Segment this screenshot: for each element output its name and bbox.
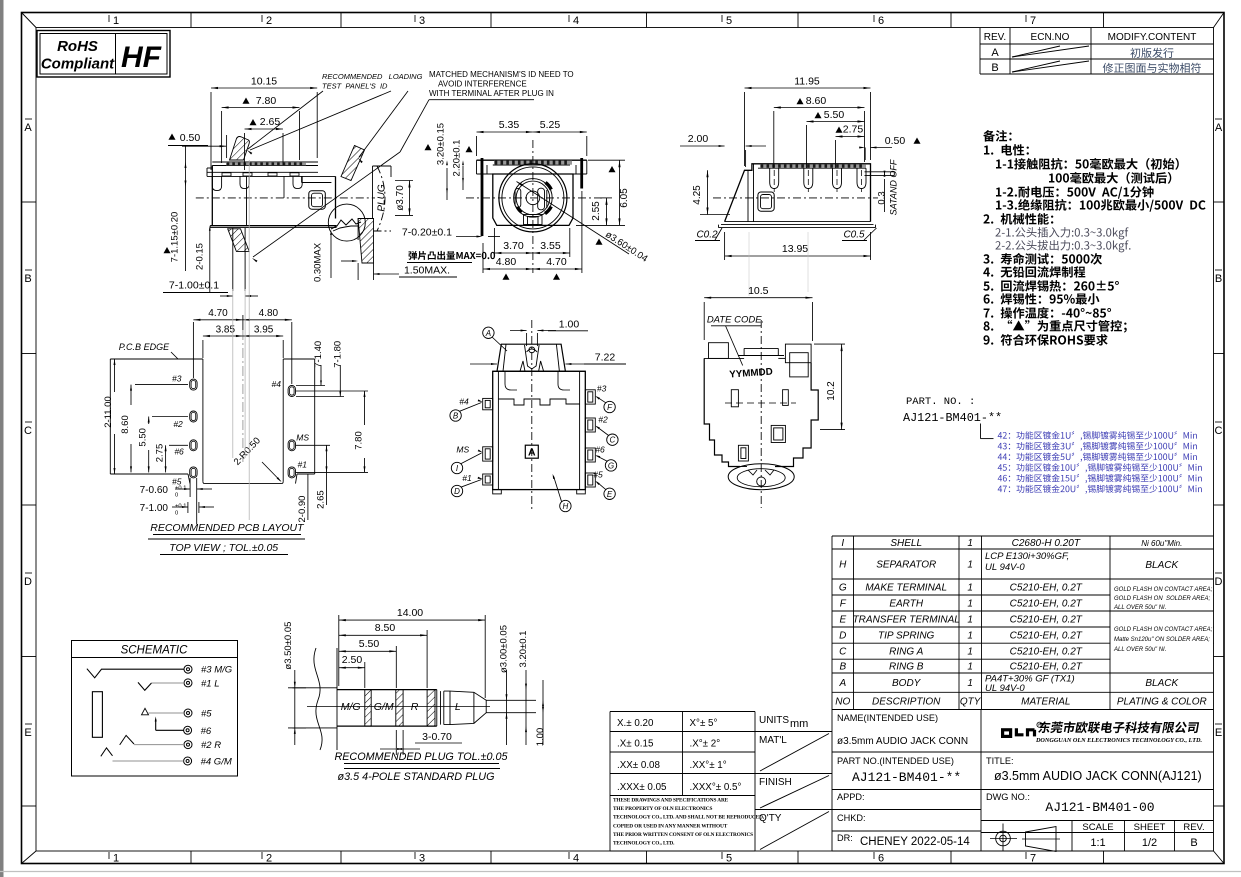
svg-text:GOLD FLASH ON SOLDER AREA;: GOLD FLASH ON SOLDER AREA; xyxy=(1114,596,1210,602)
dim 4.25 xyxy=(700,169,722,171)
svg-text:C2680-H 0.20T: C2680-H 0.20T xyxy=(1012,538,1081,549)
svg-text:3.70: 3.70 xyxy=(503,240,524,252)
svg-text:TIP SPRING: TIP SPRING xyxy=(878,631,935,642)
svg-text:2: 2 xyxy=(266,853,272,865)
svg-text:R: R xyxy=(411,701,419,713)
svg-text:1.00: 1.00 xyxy=(559,319,580,331)
svg-text:1: 1 xyxy=(967,631,973,642)
svg-text:ECN.NO: ECN.NO xyxy=(1031,32,1070,43)
svg-text:B: B xyxy=(24,273,31,285)
svg-text:2: 2 xyxy=(266,15,272,27)
title block xyxy=(831,710,833,852)
svg-text:TRANSFER TERMINAL: TRANSFER TERMINAL xyxy=(853,615,960,626)
svg-text:5.50: 5.50 xyxy=(824,109,845,121)
svg-text:I: I xyxy=(841,538,844,549)
notes (Chinese) block xyxy=(983,130,1011,142)
section label H xyxy=(560,500,571,511)
dim 14.00 xyxy=(338,615,340,686)
svg-text:#3 M/G: #3 M/G xyxy=(201,665,232,676)
hatched panel lower xyxy=(228,229,250,252)
svg-text:MATERIAL: MATERIAL xyxy=(1021,696,1070,707)
spring protrusion note xyxy=(409,251,496,260)
dim 6.05 xyxy=(588,159,625,161)
svg-text:EARTH: EARTH xyxy=(889,599,923,610)
svg-text:CHKD:: CHKD: xyxy=(837,813,866,823)
section label A circle xyxy=(483,327,494,338)
svg-text:C5210-EH, 0.2T: C5210-EH, 0.2T xyxy=(1010,599,1083,610)
svg-text:7: 7 xyxy=(1030,15,1036,27)
svg-text:Matte Sn120u" ON SOLDER AREA;: Matte Sn120u" ON SOLDER AREA; xyxy=(1114,637,1210,643)
svg-text:PLATING & COLOR: PLATING & COLOR xyxy=(1117,696,1207,707)
tip extension lines xyxy=(486,699,536,701)
outline top blocks xyxy=(709,343,729,359)
svg-text:2.75: 2.75 xyxy=(843,124,864,136)
plug tip xyxy=(444,691,486,725)
svg-text:C0.5: C0.5 xyxy=(843,230,865,241)
dim 2-0.15 xyxy=(209,228,211,292)
svg-text:5.50: 5.50 xyxy=(138,428,149,447)
svg-text:E: E xyxy=(1215,727,1222,739)
svg-text:#5: #5 xyxy=(201,709,212,720)
svg-text:7-1.00±0.1: 7-1.00±0.1 xyxy=(169,280,219,292)
svg-text:ø3.00±0.05: ø3.00±0.05 xyxy=(499,625,510,673)
schematic box xyxy=(72,641,238,777)
side window rounded rect xyxy=(309,191,326,210)
sleeve contact rectangle xyxy=(92,692,102,738)
body bottom plate xyxy=(210,225,336,227)
center hole circle xyxy=(526,191,540,205)
left gray strip xyxy=(0,0,4,877)
terminals hanging xyxy=(770,168,779,188)
svg-text:2.00: 2.00 xyxy=(688,133,709,145)
svg-text:7-0.60: 7-0.60 xyxy=(140,485,169,496)
side bumps left xyxy=(483,398,493,409)
svg-text:DATE CODE.: DATE CODE. xyxy=(707,315,764,326)
svg-text:mm: mm xyxy=(790,718,808,730)
svg-text:RING B: RING B xyxy=(889,662,924,673)
side bumps right xyxy=(585,390,595,404)
svg-text:5: 5 xyxy=(726,15,732,27)
contact wedge top right xyxy=(546,183,552,190)
svg-text:H: H xyxy=(563,502,569,511)
svg-text:10.2: 10.2 xyxy=(826,381,837,401)
svg-text:ø3.5mm AUDIO JACK CONN: ø3.5mm AUDIO JACK CONN xyxy=(837,736,968,747)
svg-text:#2 R: #2 R xyxy=(201,740,221,751)
boxed A section mark xyxy=(525,445,538,458)
flange with serrations xyxy=(477,159,587,161)
svg-text:LCP E130i+30%GF,: LCP E130i+30%GF, xyxy=(985,551,1069,562)
dim 8.60 r xyxy=(773,111,775,168)
main body side xyxy=(211,166,213,226)
dim 3.70 3.55 xyxy=(493,228,495,257)
wire #4 with peak xyxy=(101,748,113,756)
dim 2.75 xyxy=(165,445,167,472)
pcb edge outline xyxy=(110,358,203,360)
svg-text:8.60: 8.60 xyxy=(806,95,827,107)
side window right view xyxy=(758,192,774,211)
svg-text:C0.2: C0.2 xyxy=(696,230,718,241)
svg-text:PLUG: PLUG xyxy=(377,184,388,211)
hatched ring 1 xyxy=(365,690,371,727)
svg-text:3.20±0.15: 3.20±0.15 xyxy=(436,123,447,165)
svg-text:E: E xyxy=(839,615,846,626)
svg-text:SCHEMATIC: SCHEMATIC xyxy=(121,645,189,657)
terminal #1 L xyxy=(184,679,192,687)
svg-text:#1: #1 xyxy=(298,460,308,470)
bottom feet xyxy=(493,490,502,494)
dim dia 3.60 xyxy=(517,182,630,255)
svg-text:2.75: 2.75 xyxy=(155,444,166,463)
svg-text:#6: #6 xyxy=(595,444,605,454)
svg-text:ø3.5mm AUDIO JACK CONN(AJ121): ø3.5mm AUDIO JACK CONN(AJ121) xyxy=(994,769,1202,783)
hatched panel right-upper xyxy=(341,146,365,181)
svg-text:C5210-EH, 0.2T: C5210-EH, 0.2T xyxy=(1010,647,1083,658)
dim 2.75 r xyxy=(835,140,837,168)
dim 7.80 xyxy=(296,390,368,392)
tolerance table xyxy=(609,712,611,852)
svg-text:AJ121-BM401-**: AJ121-BM401-** xyxy=(852,770,961,785)
svg-text:3: 3 xyxy=(419,15,425,27)
units matl finish qty cells xyxy=(755,731,832,733)
left pcb thick bar xyxy=(481,158,484,236)
svg-text:UL 94V-0: UL 94V-0 xyxy=(985,562,1025,573)
svg-text:A: A xyxy=(838,678,846,689)
svg-text:10.15: 10.15 xyxy=(251,76,277,88)
front body outline xyxy=(493,174,573,225)
dim 5.35 5.25 xyxy=(476,136,478,156)
svg-text:COPIED OR USED IN ANY MANNER W: COPIED OR USED IN ANY MANNER WITHOUT xyxy=(613,823,728,829)
svg-text:AJ121-BM401-00: AJ121-BM401-00 xyxy=(1045,800,1154,815)
svg-text:1: 1 xyxy=(967,647,973,658)
svg-text:ø3.50±0.05: ø3.50±0.05 xyxy=(283,622,294,670)
terminal #2 R xyxy=(184,741,192,749)
svg-text:SEPARATOR: SEPARATOR xyxy=(876,560,936,571)
svg-text:TOP VIEW ; TOL.±0.05: TOP VIEW ; TOL.±0.05 xyxy=(169,542,278,554)
svg-text:D: D xyxy=(24,576,32,588)
svg-text:FINISH: FINISH xyxy=(759,777,792,788)
terminal #3 M/G xyxy=(184,665,192,673)
svg-text:1: 1 xyxy=(967,678,973,689)
svg-text:DESCRIPTION: DESCRIPTION xyxy=(872,696,941,707)
svg-text:C5210-EH, 0.2T: C5210-EH, 0.2T xyxy=(1010,583,1083,594)
foot projection lines xyxy=(232,228,234,291)
svg-text:RECOMMENDED PCB LAYOUT: RECOMMENDED PCB LAYOUT xyxy=(150,522,305,534)
svg-text:ø3.5 4-POLE STANDARD PLUG: ø3.5 4-POLE STANDARD PLUG xyxy=(338,771,495,783)
wire #3 with switch xyxy=(87,669,184,678)
dim 10.15 xyxy=(210,92,212,170)
dim 2.65 xyxy=(296,444,330,446)
svg-text:P.C.B EDGE: P.C.B EDGE xyxy=(119,342,170,352)
svg-text:7-1.00: 7-1.00 xyxy=(140,503,169,514)
svg-text:AJ121-BM401-**: AJ121-BM401-** xyxy=(903,411,1002,425)
svg-text:0.3: 0.3 xyxy=(877,191,888,204)
svg-text:D: D xyxy=(839,631,846,642)
RoHS Compliant HF logo box xyxy=(37,31,170,78)
terminal #5 xyxy=(184,709,192,717)
svg-text:DWG NO.:: DWG NO.: xyxy=(986,792,1030,802)
svg-text:B: B xyxy=(1215,273,1222,285)
svg-text:5.35: 5.35 xyxy=(499,119,520,131)
body internal verticals xyxy=(246,176,248,225)
contact wedge left xyxy=(517,207,522,213)
pads left column xyxy=(190,379,197,390)
svg-text:G/M: G/M xyxy=(374,701,394,713)
svg-text:4.80: 4.80 xyxy=(496,256,517,268)
svg-text:2.50: 2.50 xyxy=(342,654,363,666)
svg-text:Q'TY: Q'TY xyxy=(759,813,782,824)
svg-text:#4: #4 xyxy=(272,379,282,389)
svg-text:SHELL: SHELL xyxy=(890,538,922,549)
svg-text:1: 1 xyxy=(113,853,119,865)
terminal #4 G/M xyxy=(184,757,192,765)
dim 7-0.60 xyxy=(189,478,191,497)
svg-text:E: E xyxy=(24,727,31,739)
svg-text:MS: MS xyxy=(456,444,469,454)
svg-text:RoHS: RoHS xyxy=(57,38,98,55)
third angle projection symbol xyxy=(996,831,1011,846)
main outline top view xyxy=(704,357,744,359)
svg-text:7: 7 xyxy=(1030,853,1036,865)
svg-text:1: 1 xyxy=(967,662,973,673)
part number bracket xyxy=(980,424,982,439)
svg-text:6: 6 xyxy=(878,853,884,865)
svg-text:1.50MAX.: 1.50MAX. xyxy=(404,265,450,277)
dim 5.50 xyxy=(148,417,150,425)
svg-text:TITLE:: TITLE: xyxy=(986,756,1014,766)
svg-text:PART. NO. :: PART. NO. : xyxy=(906,396,975,408)
svg-text:0.30MAX: 0.30MAX xyxy=(313,242,324,282)
svg-text:7-1.15±0.20: 7-1.15±0.20 xyxy=(170,212,181,263)
svg-text:Ni 60u"Min.: Ni 60u"Min. xyxy=(1141,539,1182,548)
dim 0.50 xyxy=(169,134,176,140)
projection lines gray xyxy=(232,289,234,458)
centerline top view xyxy=(760,320,762,508)
spring detail circle xyxy=(328,204,365,241)
svg-text:PART NO.(INTENDED USE): PART NO.(INTENDED USE) xyxy=(837,756,954,766)
dim 7.80 xyxy=(221,111,223,163)
svg-text:B: B xyxy=(991,62,998,74)
leader lines to panels xyxy=(248,91,323,149)
svg-text:A: A xyxy=(1215,122,1223,134)
svg-text:#1: #1 xyxy=(462,473,472,483)
svg-text:C: C xyxy=(839,647,847,658)
svg-text:UL 94V-0: UL 94V-0 xyxy=(985,683,1025,694)
projection lines from views gray xyxy=(748,232,750,296)
svg-text:4: 4 xyxy=(573,15,579,27)
pads right column xyxy=(288,386,295,397)
svg-text:M/G: M/G xyxy=(341,701,361,713)
plug handle with break lines xyxy=(293,687,338,689)
svg-text:2.20±0.1: 2.20±0.1 xyxy=(452,140,463,177)
svg-text:1: 1 xyxy=(967,560,973,571)
neck rings xyxy=(436,690,438,727)
svg-text:4: 4 xyxy=(573,853,579,865)
svg-text:7.22: 7.22 xyxy=(595,352,616,364)
svg-text:#4: #4 xyxy=(459,397,469,407)
svg-text:X.± 0.20: X.± 0.20 xyxy=(617,718,654,729)
svg-text:ALL OVER 50u" NI.: ALL OVER 50u" NI. xyxy=(1113,647,1166,653)
svg-text:0: 0 xyxy=(175,493,178,499)
dim 13.95 xyxy=(724,232,726,260)
svg-text:ø3.70: ø3.70 xyxy=(395,185,406,211)
dim 8.50 xyxy=(426,630,428,688)
svg-text:DR:: DR: xyxy=(837,833,853,843)
svg-text:.XXX°± 0.5°: .XXX°± 0.5° xyxy=(690,782,742,793)
svg-text:7-1.80: 7-1.80 xyxy=(332,341,343,368)
svg-text:#3: #3 xyxy=(172,373,182,383)
centerline bottom view xyxy=(531,320,533,510)
svg-text:1.00: 1.00 xyxy=(535,728,546,747)
svg-text:WITH TERMINAL AFTER PLUG IN: WITH TERMINAL AFTER PLUG IN xyxy=(429,89,554,98)
dim 2-0.90 xyxy=(296,475,308,477)
svg-text:#1 L: #1 L xyxy=(201,678,220,689)
svg-text:6: 6 xyxy=(878,15,884,27)
svg-text:GOLD FLASH ON CONTACT AREA;: GOLD FLASH ON CONTACT AREA; xyxy=(1114,587,1213,593)
svg-text:#2: #2 xyxy=(598,415,608,425)
svg-text:SCALE: SCALE xyxy=(1082,822,1113,833)
svg-text:1: 1 xyxy=(967,538,973,549)
wire #2 with peak xyxy=(120,735,134,745)
centerline right view xyxy=(713,197,878,199)
svg-text:BLACK: BLACK xyxy=(1145,678,1179,689)
jack inner ring xyxy=(514,179,553,218)
svg-text:TEST PANEL'S ID: TEST PANEL'S ID xyxy=(322,82,388,91)
svg-text:5.25: 5.25 xyxy=(540,119,561,131)
jack outer ring xyxy=(499,164,567,232)
svg-text:.XX°± 1°: .XX°± 1° xyxy=(690,760,727,771)
svg-text:UNITS: UNITS xyxy=(759,715,789,726)
company logo OLN xyxy=(1003,728,1035,736)
svg-text:C: C xyxy=(1215,425,1223,437)
contact wedge bottom right xyxy=(545,207,551,214)
dim 4.80 4.70 xyxy=(482,243,484,273)
svg-text:4.80: 4.80 xyxy=(259,308,279,319)
svg-text:D: D xyxy=(454,487,460,496)
dim 2-11.00 xyxy=(114,359,116,392)
svg-text:7.80: 7.80 xyxy=(256,95,277,107)
svg-text:GOLD FLASH ON CONTACT AREA;: GOLD FLASH ON CONTACT AREA; xyxy=(1114,627,1213,633)
svg-text:RECOMMENDED LOADING: RECOMMENDED LOADING xyxy=(322,72,423,81)
svg-text:DONGGUAN OLN ELECTRONICS TECHN: DONGGUAN OLN ELECTRONICS TECHNOLOGY CO.,… xyxy=(1035,737,1202,744)
svg-text:MODIFY.CONTENT: MODIFY.CONTENT xyxy=(1108,32,1197,43)
svg-text:CHENEY 2022-05-14: CHENEY 2022-05-14 xyxy=(860,836,970,848)
svg-text:MAKE TERMINAL: MAKE TERMINAL xyxy=(865,583,947,594)
svg-text:#4 G/M: #4 G/M xyxy=(201,757,232,768)
inner small parts xyxy=(731,390,738,407)
dim 3.85 3.95 xyxy=(202,340,204,358)
svg-text:8.60: 8.60 xyxy=(120,415,131,434)
svg-text:Compliant: Compliant xyxy=(41,56,115,73)
svg-text:REV.: REV. xyxy=(984,32,1006,43)
svg-text:7.80: 7.80 xyxy=(354,431,365,450)
top cap trapezoid xyxy=(497,344,565,371)
dim 10.2 top view xyxy=(814,343,845,345)
svg-text:.XXX± 0.05: .XXX± 0.05 xyxy=(617,782,667,793)
svg-text:BODY: BODY xyxy=(892,678,922,689)
dim 2.50 xyxy=(364,662,366,688)
svg-text:RING A: RING A xyxy=(889,647,923,658)
svg-text:8.50: 8.50 xyxy=(375,622,396,634)
svg-text:7-0.20±0.1: 7-0.20±0.1 xyxy=(402,227,452,239)
svg-text:4.25: 4.25 xyxy=(692,185,703,205)
dim 7-1.00 xyxy=(187,502,189,513)
svg-text:2-0.90: 2-0.90 xyxy=(297,496,308,523)
dim 1.00 clip xyxy=(526,333,528,346)
svg-text:1: 1 xyxy=(967,599,973,610)
svg-text:D: D xyxy=(1215,576,1223,588)
svg-text:G: G xyxy=(608,461,614,470)
dim 10.5 top xyxy=(703,302,705,340)
top serration right view xyxy=(758,167,866,169)
svg-text:1: 1 xyxy=(967,583,973,594)
svg-text:C5210-EH, 0.2T: C5210-EH, 0.2T xyxy=(1010,662,1083,673)
inner contact left xyxy=(515,188,521,207)
plug centerline xyxy=(307,706,490,708)
standoff pin xyxy=(865,171,895,173)
feet hooks xyxy=(212,176,221,190)
svg-text:3: 3 xyxy=(419,853,425,865)
svg-text:#3: #3 xyxy=(597,384,607,394)
svg-text:E: E xyxy=(607,490,613,499)
wire #6 with arrow xyxy=(156,729,184,731)
svg-text:B: B xyxy=(453,412,459,421)
dim 2.65 xyxy=(244,133,246,170)
svg-text:0.50: 0.50 xyxy=(885,135,906,147)
svg-text:3.55: 3.55 xyxy=(540,240,561,252)
svg-text:10.5: 10.5 xyxy=(748,285,769,297)
svg-text:.XX± 0.08: .XX± 0.08 xyxy=(617,760,661,771)
dim 5.50 r xyxy=(806,125,808,168)
svg-text:SATAND OFF: SATAND OFF xyxy=(889,159,899,215)
svg-text:BLACK: BLACK xyxy=(1145,560,1179,571)
hatched ring 3 xyxy=(427,690,435,727)
svg-text:THE PROPERTY OF OLN ELECTRONIC: THE PROPERTY OF OLN ELECTRONICS xyxy=(613,806,712,812)
svg-text:RECOMMENDED PLUG TOL.±0.05: RECOMMENDED PLUG TOL.±0.05 xyxy=(334,751,508,763)
svg-text:6.05: 6.05 xyxy=(619,188,630,208)
svg-text:THE PRIOR WRITTEN CONSENT OF O: THE PRIOR WRITTEN CONSENT OF OLN ELECTRO… xyxy=(613,832,753,838)
svg-text:5.50: 5.50 xyxy=(359,638,380,650)
dim 5.50 xyxy=(395,646,397,688)
svg-text:B: B xyxy=(1190,837,1197,849)
corner diagonals xyxy=(22,13,37,28)
svg-text:TECHNOLOGY CO., LTD.: TECHNOLOGY CO., LTD. xyxy=(613,841,675,847)
svg-text:F: F xyxy=(840,599,847,610)
svg-text:13.95: 13.95 xyxy=(782,243,808,255)
svg-text:G: G xyxy=(839,583,847,594)
border zone dividers xyxy=(190,13,192,28)
dim 11.95 xyxy=(744,92,746,166)
svg-text:0.50: 0.50 xyxy=(180,132,201,144)
main body bottom view xyxy=(493,371,586,489)
parts list table xyxy=(831,536,833,710)
flange line xyxy=(493,370,586,372)
svg-text:APPD:: APPD: xyxy=(837,792,865,802)
svg-text:REV.: REV. xyxy=(1183,822,1204,833)
barrel ellipse xyxy=(728,464,794,490)
svg-text:#5: #5 xyxy=(593,470,603,480)
top clip fork xyxy=(529,347,535,353)
svg-text:X°± 5°: X°± 5° xyxy=(690,718,718,729)
inner contact right xyxy=(538,188,545,210)
svg-text:#6: #6 xyxy=(174,447,184,457)
svg-text:3.95: 3.95 xyxy=(254,325,274,336)
centerline horizontal xyxy=(196,197,375,199)
svg-text:7-1.40: 7-1.40 xyxy=(313,341,324,368)
second strip with tabs xyxy=(207,171,318,173)
svg-text:2-11.00: 2-11.00 xyxy=(103,396,114,428)
svg-text:ALL OVER 50u" NI.: ALL OVER 50u" NI. xyxy=(1113,605,1166,611)
svg-text:SHEET: SHEET xyxy=(1134,822,1166,833)
